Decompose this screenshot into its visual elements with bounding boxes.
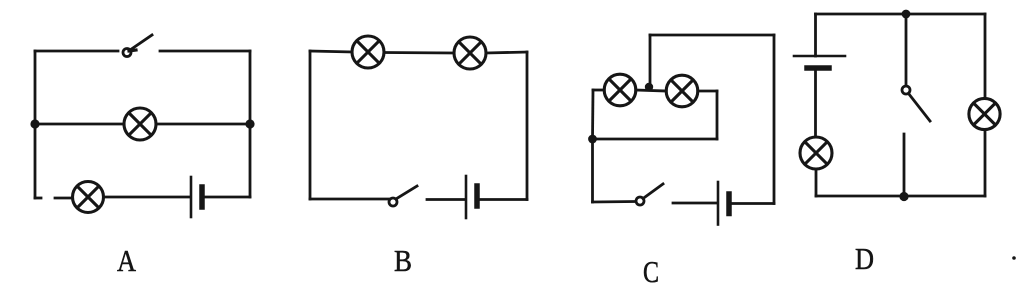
wire B bottom-right segment [480, 198, 528, 201]
node A-left junction [30, 119, 39, 128]
node D-bottom junction [899, 192, 908, 201]
lamp L-C2 [666, 75, 698, 107]
node C-left junction [588, 135, 597, 144]
wire B top segment 3 [486, 52, 527, 53]
wire D right vertical upper [984, 14, 987, 99]
wire D bottom segment [816, 195, 985, 198]
svg-text:A: A [117, 243, 137, 278]
lamp L-A2 (bottom branch) [73, 182, 104, 213]
wire D left vertical mid [814, 71, 817, 138]
wire C left vertical lower [591, 139, 594, 202]
node D-top junction [902, 10, 911, 19]
wire C left vertical upper [591, 90, 594, 139]
wire B top segment 1 [310, 51, 352, 52]
wire A top-right segment [160, 50, 250, 53]
wire C bottom mid segment [673, 202, 716, 205]
wire A middle-right segment [156, 123, 250, 126]
wire A right vertical [249, 51, 252, 197]
stray dot mark [1012, 256, 1016, 260]
svg-text:D: D [855, 241, 874, 276]
svg-text:B: B [394, 243, 412, 278]
wire B left vertical [309, 51, 312, 199]
wire A top-left segment [35, 50, 118, 53]
switch S-D (open) [902, 86, 930, 121]
lamp L-B2 [454, 37, 486, 69]
wire D right vertical lower [984, 130, 987, 197]
battery B-A [191, 177, 202, 217]
wire C vertical from top to mid node [649, 35, 652, 85]
wire C lamp1 to left vertical [593, 89, 604, 92]
lamp L-B1 [352, 36, 384, 68]
wire C inner horizontal [593, 138, 718, 141]
wire C top segment [650, 34, 774, 37]
wire D left vertical lower [815, 169, 818, 196]
battery B-D [794, 56, 845, 68]
wire A bottom-right segment [205, 196, 251, 199]
wire D left vertical upper [814, 14, 817, 56]
wire C between lamps [636, 90, 666, 91]
wire A bottom segment to lamp [55, 197, 73, 200]
wire A middle-left segment [35, 123, 124, 126]
switch S-C (open) [636, 184, 663, 205]
wire B right vertical [526, 52, 529, 200]
svg-text:C: C [643, 254, 659, 289]
battery B-B [466, 176, 477, 218]
wire D top segment [816, 13, 986, 16]
wire B bottom-left segment [310, 198, 389, 201]
wire B bottom mid segment [427, 198, 464, 201]
wire C right vertical [773, 35, 776, 204]
battery B-C [718, 182, 729, 225]
lamp L-C1 [604, 74, 636, 106]
wire C bottom-left segment [593, 200, 637, 203]
wire D middle vertical lower [903, 134, 906, 196]
wire A bottom mid segment [104, 196, 190, 199]
lamp L-A1 (middle branch) [124, 108, 156, 140]
node A-right junction [245, 119, 254, 128]
wire A left vertical [34, 51, 37, 198]
wire C bottom-right segment [732, 202, 775, 205]
wire C inner right vertical [716, 91, 719, 139]
switch S-B (open) [389, 186, 417, 206]
wire C lamp2 to inner vertical [698, 90, 717, 93]
wire D middle vertical upper [905, 14, 908, 86]
switch S-A (open) [123, 35, 152, 57]
wire B top segment 2 [384, 51, 454, 54]
lamp L-D1 (left branch) [800, 137, 832, 169]
lamp L-D2 (right branch) [969, 98, 1000, 129]
wire A bottom-left tick [35, 197, 41, 200]
node C-mid junction [645, 83, 653, 91]
